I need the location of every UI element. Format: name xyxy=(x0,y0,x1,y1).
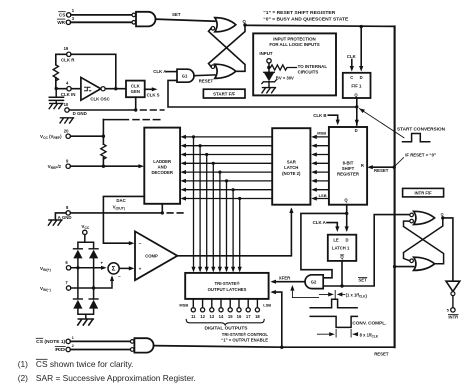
node Q of INTR F/F xyxy=(441,212,445,219)
wire VCC(VREF) to ladder rail xyxy=(70,120,105,168)
svg-text:VREF/2: VREF/2 xyxy=(48,164,62,170)
wire VCC to diode bridge top xyxy=(78,235,94,249)
svg-text:MSB: MSB xyxy=(317,130,326,135)
svg-text:CLK B: CLK B xyxy=(313,113,326,118)
input protection box xyxy=(253,33,336,95)
wire G1 output RESET to start F/F xyxy=(194,75,215,84)
wire A GND node and DAC stub with dashes xyxy=(55,204,183,220)
svg-text:CLK: CLK xyxy=(131,84,141,89)
svg-text:COMP: COMP xyxy=(145,254,158,259)
label TRI-STATE CONTROL xyxy=(221,332,268,343)
wire Q to G2 input (zigzag) xyxy=(301,213,347,277)
svg-text:CLK OSC: CLK OSC xyxy=(90,97,109,102)
wire comparator output to SAR xyxy=(177,255,291,257)
svg-text:AND: AND xyxy=(158,165,167,170)
diode D1 (upper left) xyxy=(73,249,82,259)
wire shift register Q node xyxy=(345,205,348,215)
svg-text:D: D xyxy=(355,128,358,133)
wire RESET arrow into shift register R xyxy=(367,165,396,173)
svg-text:TRI-STATE® CONTROL: TRI-STATE® CONTROL xyxy=(222,332,269,337)
start F/F top gate xyxy=(211,18,236,32)
svg-text:6: 6 xyxy=(65,260,68,265)
svg-text:11: 11 xyxy=(191,314,196,319)
ground (diode bridge) xyxy=(78,319,94,325)
svg-text:D: D xyxy=(345,237,348,242)
ground (clock capacitor) xyxy=(49,103,63,108)
svg-text:(1): (1) xyxy=(18,359,28,369)
svg-text:INTR: INTR xyxy=(448,315,458,320)
label DAC V(OUT) xyxy=(113,198,126,210)
svg-text:CLK S: CLK S xyxy=(147,92,160,97)
wire D input from start F/F Q rail xyxy=(359,25,363,72)
svg-text:TO INTERNAL: TO INTERNAL xyxy=(298,64,328,69)
svg-text:D GND: D GND xyxy=(73,111,87,116)
svg-text:LATCH: LATCH xyxy=(284,165,298,170)
svg-text:−: − xyxy=(118,274,121,279)
svg-text:19: 19 xyxy=(64,46,69,51)
svg-text:RD: RD xyxy=(55,347,65,352)
arrowhead DAC into comparator minus xyxy=(129,241,135,245)
svg-text:14: 14 xyxy=(219,314,224,319)
diode D4 (lower right) xyxy=(89,299,98,309)
svg-text:START CONVERSION: START CONVERSION xyxy=(397,127,445,132)
svg-text:1: 1 xyxy=(72,335,75,340)
INTR F/F bottom gate xyxy=(410,257,435,270)
footnote 2 xyxy=(18,373,196,383)
wire CLK S output arrow xyxy=(145,87,160,97)
start F/F cross-coupling wires xyxy=(209,26,246,72)
terminal VIN(+) pin 6 xyxy=(40,260,71,272)
node junction CLK IN xyxy=(55,87,81,90)
svg-text:D: D xyxy=(360,75,363,80)
brace digital outputs xyxy=(186,319,264,325)
inverter (INTR output) xyxy=(443,218,460,296)
terminal D GND pin 10 xyxy=(64,102,87,116)
svg-text:SAR: SAR xyxy=(287,160,297,165)
and gate G2 (transfer) xyxy=(305,275,323,289)
svg-text:5: 5 xyxy=(447,308,450,313)
svg-text:VCC (VREF): VCC (VREF) xyxy=(40,134,62,140)
wire CS to G3 input xyxy=(71,14,132,16)
wire summer to comparator plus xyxy=(119,266,134,270)
nand gate (RD.CS tri-state control) xyxy=(130,338,153,352)
annotation pointer START CONVERSION xyxy=(358,107,404,138)
INTR F/F top gate xyxy=(410,211,435,224)
svg-text:INPUT: INPUT xyxy=(259,51,272,56)
label TO INTERNAL CIRCUITS xyxy=(298,64,328,75)
wire CLK A to G1 xyxy=(167,71,178,73)
wire start F/F Q to right rail xyxy=(245,25,395,26)
svg-text:“1” = RESET SHIFT REGISTER: “1” = RESET SHIFT REGISTER xyxy=(263,10,336,15)
svg-text:1: 1 xyxy=(72,8,75,13)
svg-text:IF RESET = “0”: IF RESET = “0” xyxy=(405,152,436,157)
wire XFER arrow into output latches xyxy=(270,276,305,284)
wire VIN(+) to summer xyxy=(71,261,107,270)
terminal CS pin 1 xyxy=(59,8,75,17)
terminal VIN(-) pin 7 xyxy=(40,280,71,292)
svg-text:CLK A: CLK A xyxy=(313,220,327,225)
wire RD to bottom gate xyxy=(70,349,130,351)
latch 1 box xyxy=(328,235,357,261)
svg-text:8-BIT: 8-BIT xyxy=(343,160,354,165)
terminal A GND pin 8 xyxy=(58,205,72,220)
annotation: 1=reset 0=busy xyxy=(263,10,348,22)
svg-text:DIGITAL OUTPUTS: DIGITAL OUTPUTS xyxy=(205,326,248,331)
terminal VCC (VREF) pin 20 xyxy=(40,128,70,140)
svg-text:13: 13 xyxy=(209,314,214,319)
svg-text:V(OUT): V(OUT) xyxy=(113,204,125,210)
svg-text:“1” = OUTPUT ENABLE: “1” = OUTPUT ENABLE xyxy=(221,338,268,343)
svg-text:BV = 30V: BV = 30V xyxy=(276,75,294,80)
capacitor C clk xyxy=(49,90,63,103)
svg-text:(2): (2) xyxy=(18,373,28,383)
wire diode column left xyxy=(78,259,94,299)
terminal VREF/2 pin 9 xyxy=(48,158,71,170)
right rail: start F/F Q down right side xyxy=(394,26,396,347)
svg-text:CLK: CLK xyxy=(347,54,357,59)
svg-text:(1 x 1/fCLK): (1 x 1/fCLK) xyxy=(346,292,368,298)
diode D2 (upper right) xyxy=(89,249,98,259)
terminal CLK IN pin 4 xyxy=(61,80,76,97)
wire SET to INTR F/F xyxy=(342,215,410,286)
svg-text:GEN: GEN xyxy=(131,89,140,94)
svg-text:DAC: DAC xyxy=(116,198,125,203)
svg-text:VIN(+): VIN(+) xyxy=(40,266,51,272)
svg-text:CONV. COMPL.: CONV. COMPL. xyxy=(352,321,386,326)
svg-text:REGISTER: REGISTER xyxy=(337,172,360,177)
svg-text:LE: LE xyxy=(333,237,339,242)
svg-text:12: 12 xyxy=(200,314,205,319)
waveform: conversion complete pulse xyxy=(310,316,357,327)
output pin stubs and terminals 11-18 xyxy=(191,299,260,319)
svg-text:CLK A: CLK A xyxy=(153,69,167,74)
footnote 1 xyxy=(18,359,134,369)
svg-text:INTR F/F: INTR F/F xyxy=(414,191,432,196)
svg-text:9: 9 xyxy=(66,158,69,163)
ground (D GND pin 10) xyxy=(60,118,74,123)
comparator COMP xyxy=(135,231,177,280)
resistor (VREF divider) xyxy=(101,144,106,159)
svg-text:Q: Q xyxy=(441,212,444,216)
terminal RD pin 2 (bottom) xyxy=(55,343,74,352)
svg-text:CLK R: CLK R xyxy=(61,58,75,63)
wire VREF/2 into ladder xyxy=(70,164,144,168)
wire latch1 Q to G2 lower input xyxy=(323,285,342,287)
nand gate G3 (CS.WR) xyxy=(132,12,156,27)
dimension arrows 1 x 1/fclk xyxy=(319,290,367,299)
wire F/F1 Q feedback to G1 input xyxy=(168,80,357,107)
resistor R clk xyxy=(53,65,58,81)
terminal WR pin 3 xyxy=(57,16,75,25)
INTR F/F label box xyxy=(403,188,444,197)
svg-text:LATCH 1: LATCH 1 xyxy=(332,245,350,250)
waveform: start pulse xyxy=(310,299,357,308)
annotation IF RESET = 0 xyxy=(394,152,436,166)
svg-text:7: 7 xyxy=(65,280,68,285)
terminal INTR pin 5 xyxy=(447,296,459,320)
zener diode (protection) with BV label xyxy=(262,72,294,87)
terminal CLK R pin 19 xyxy=(61,46,75,62)
terminal VCC (comparator bias) xyxy=(81,224,90,235)
flip-flop F/F 1 box xyxy=(343,73,371,98)
svg-text:START F/F: START F/F xyxy=(213,92,235,97)
svg-text:CIRCUITS: CIRCUITS xyxy=(298,69,319,74)
svg-text:15: 15 xyxy=(228,314,233,319)
svg-text:FOR ALL LOGIC INPUTS: FOR ALL LOGIC INPUTS xyxy=(269,42,319,47)
label START CONVERSION with pulse xyxy=(397,127,445,142)
label CLK B with arrow into shift register xyxy=(313,113,340,125)
label CLK A with arrow into LE xyxy=(313,220,340,232)
wire CS to bottom gate xyxy=(70,340,130,342)
bus: shift register to SAR latch (8 arrows) xyxy=(311,135,329,201)
svg-text:−: − xyxy=(139,242,142,247)
svg-text:8 x 1/fCLK: 8 x 1/fCLK xyxy=(360,333,379,339)
and gate G1 xyxy=(177,69,194,82)
wire DAC output to comparator xyxy=(103,196,144,243)
start F/F bottom gate xyxy=(211,64,236,78)
wire WR to G3 input xyxy=(71,21,132,23)
svg-text:10: 10 xyxy=(64,102,69,107)
svg-text:17: 17 xyxy=(246,314,251,319)
svg-text:TRI-STATE®: TRI-STATE® xyxy=(215,281,241,286)
dashed VCC rail xyxy=(103,119,159,121)
svg-text:VIN(−): VIN(−) xyxy=(40,286,51,292)
svg-text:VCC: VCC xyxy=(81,224,90,230)
wire CLK OSC output to CLK GEN xyxy=(105,87,126,90)
svg-text:WR: WR xyxy=(57,20,65,25)
ground (input protection) xyxy=(262,88,276,93)
schmitt inverter CLK OSC xyxy=(81,77,110,101)
wire bridge bottom to ground xyxy=(78,288,94,319)
wire input node xyxy=(267,63,270,72)
svg-text:+: + xyxy=(139,267,142,272)
node Q of start F/F xyxy=(243,19,247,27)
wire comparator output up into SAR latch xyxy=(289,207,293,254)
svg-text:RESET: RESET xyxy=(374,352,389,357)
svg-text:2: 2 xyxy=(72,343,75,348)
start F/F label box xyxy=(203,89,245,98)
wire CLK R feedback loop xyxy=(56,54,116,87)
CLK GEN box xyxy=(126,81,145,98)
svg-text:LSB: LSB xyxy=(319,193,327,198)
svg-text:Q: Q xyxy=(243,19,247,24)
svg-text:16: 16 xyxy=(237,314,242,319)
svg-text:CS (NOTE 1): CS (NOTE 1) xyxy=(36,339,66,344)
svg-text:A GND: A GND xyxy=(58,215,72,220)
svg-text:LADDER: LADDER xyxy=(153,159,172,164)
svg-text:4: 4 xyxy=(66,80,69,85)
svg-text:RESET: RESET xyxy=(374,168,389,173)
svg-text:G1: G1 xyxy=(182,74,188,79)
svg-text:CS shown twice for clarity.: CS shown twice for clarity. xyxy=(36,359,134,369)
SAR latch box (note 2) xyxy=(272,128,310,205)
wire CLK arrow into C xyxy=(350,60,354,72)
wire tri-state enable arrow into latches xyxy=(270,290,281,347)
svg-text:SHIFT: SHIFT xyxy=(342,166,355,171)
terminal CS (note 1) pin 1 (bottom) xyxy=(36,335,74,344)
wire right rail stub into INTR F/F bottom gate xyxy=(393,265,414,268)
wire latch1 Q out xyxy=(340,261,343,288)
svg-text:SAR = Successive Approximation: SAR = Successive Approximation Register. xyxy=(36,373,196,383)
svg-text:18: 18 xyxy=(255,314,260,319)
svg-text:DECODER: DECODER xyxy=(151,170,173,175)
svg-text:XFER: XFER xyxy=(279,276,291,281)
wire tri-state control / reset line xyxy=(154,346,395,349)
resistor (protection) xyxy=(271,65,297,70)
svg-text:CS: CS xyxy=(59,13,65,18)
wire SET: G3 output to start F/F xyxy=(156,12,215,21)
terminal INPUT (protection) xyxy=(259,51,272,63)
wire F/F1 Q node xyxy=(355,98,359,125)
svg-text:R: R xyxy=(361,163,364,168)
ladder and decoder box xyxy=(144,128,180,204)
svg-text:8: 8 xyxy=(66,205,69,210)
wire VIN(-) to summer bottom xyxy=(71,274,121,290)
tri-state output latches box xyxy=(185,273,268,299)
wire D GND rail with dashes xyxy=(69,97,164,112)
dimension arrows 8 x 1/fclk xyxy=(317,329,378,338)
dimension pointer at XFER (1 x 1/fclk) xyxy=(290,285,318,298)
svg-text:“0” = BUSY AND QUIESCENT STATE: “0” = BUSY AND QUIESCENT STATE xyxy=(263,16,348,21)
svg-text:MSB: MSB xyxy=(179,302,188,307)
8-bit shift register box xyxy=(329,127,367,205)
svg-text:F/F 1: F/F 1 xyxy=(351,84,362,89)
wire Q to latch1 D input xyxy=(345,213,349,232)
svg-text:OUTPUT LATCHES: OUTPUT LATCHES xyxy=(208,287,247,292)
svg-text:(NOTE 2): (NOTE 2) xyxy=(282,171,301,176)
svg-text:C: C xyxy=(350,75,353,80)
svg-text:INPUT PROTECTION: INPUT PROTECTION xyxy=(273,37,315,42)
svg-text:RESET: RESET xyxy=(199,79,214,84)
diode D3 (lower left) xyxy=(73,299,82,309)
svg-text:Σ: Σ xyxy=(112,266,116,273)
summing junction xyxy=(108,263,119,274)
svg-text:20: 20 xyxy=(64,128,69,133)
svg-text:SET: SET xyxy=(172,12,181,17)
bus: staircase taps down to output latches xyxy=(191,135,241,272)
svg-text:+: + xyxy=(100,261,103,266)
svg-text:3: 3 xyxy=(72,16,75,21)
bus: SAR latch outputs to ladder (8 lines with arrows) xyxy=(180,135,272,201)
INTR F/F cross-coupling wires xyxy=(404,218,444,264)
svg-text:LSB: LSB xyxy=(263,302,271,307)
svg-text:SET: SET xyxy=(358,277,367,282)
svg-text:G2: G2 xyxy=(311,280,317,285)
ground (A GND) xyxy=(48,220,62,225)
